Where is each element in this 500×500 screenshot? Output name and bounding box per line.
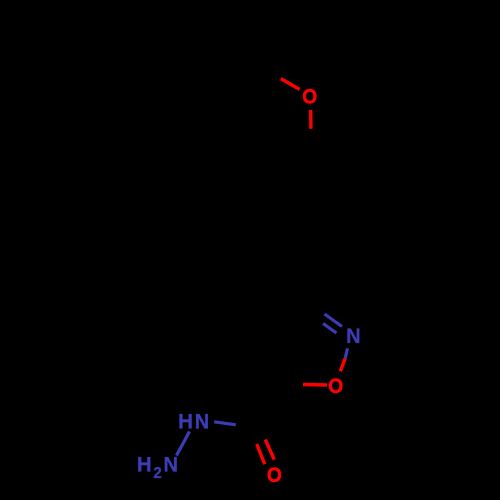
svg-text:2: 2 xyxy=(153,465,161,482)
svg-text:O: O xyxy=(328,374,343,398)
svg-text:O: O xyxy=(267,463,282,487)
svg-text:N: N xyxy=(346,325,361,349)
svg-text:N: N xyxy=(195,410,210,434)
svg-text:N: N xyxy=(163,453,178,477)
svg-text:H: H xyxy=(137,453,152,477)
svg-text:H: H xyxy=(178,410,193,434)
svg-text:O: O xyxy=(302,85,317,109)
